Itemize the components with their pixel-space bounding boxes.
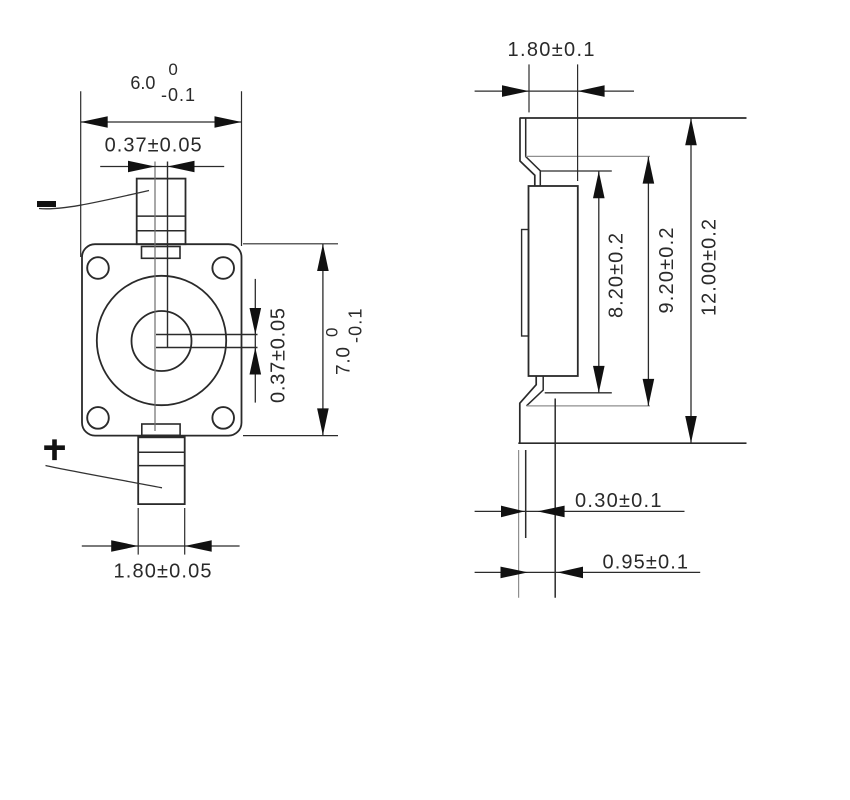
foot top edge / 9.20 extension bottom [526,405,650,407]
plus polarity mark [44,439,65,460]
svg-text:0.37±0.05: 0.37±0.05 [268,308,290,403]
dim 6.0 extension line left [80,91,82,257]
bottom lead inner contour [526,377,543,406]
svg-text:0: 0 [168,60,177,79]
dim 8.20 arrow bottom [593,366,605,393]
dim 0.95 line [475,571,701,573]
dim 9.20 line [647,157,649,406]
top lead outer contour [520,118,535,186]
svg-text:0.95±0.1: 0.95±0.1 [603,552,689,574]
dim 0.37 top arrow left [128,161,155,173]
8.20 extension top [540,170,612,172]
body rectangle [529,186,578,376]
dim 6.0 line [81,121,242,123]
top lead crimp line 1 [137,215,186,217]
dim 6.0 arrow left [81,116,108,128]
side bump [522,230,529,337]
corner hole bottom-right [212,407,234,429]
dim 1.80 bottom extension right [184,508,186,555]
dim 0.37 top arrow right [168,161,195,173]
dim 1.80 top extension left [528,64,530,112]
top tab [142,247,181,259]
dim 7.0 extension top [243,243,338,245]
dim 1.80 top extension right [577,64,579,181]
dim 1.80 bottom arrow left [111,540,138,552]
dim 0.30 line [475,510,685,512]
dim 12.00 arrow top [685,118,697,145]
corner hole top-left [87,257,109,279]
foot tip extension line [554,399,556,598]
dim 0.95 arrow right [558,567,584,579]
svg-text:1.80±0.05: 1.80±0.05 [114,561,212,583]
bottom lead [138,437,185,504]
svg-text:7.0: 7.0 [334,347,355,375]
dim 1.80 bottom arrow right [185,540,212,552]
svg-text:0: 0 [323,328,342,337]
dim 1.80 bottom extension left [137,508,139,555]
foot bottom edge / 12.00 extension bottom [518,442,746,444]
top lead inner contour [526,118,541,186]
dim 0.37 top line [100,166,224,168]
dim 7.0 arrow bottom [317,408,329,435]
svg-text:1.80±0.1: 1.80±0.1 [508,39,595,61]
dim 7.0 line [322,244,324,436]
svg-text:-0.1: -0.1 [161,85,195,105]
wire edge line right [167,162,169,348]
corner hole top-right [212,257,234,279]
plus leader line [46,466,163,488]
lens outer circle [97,276,226,405]
top lead [137,179,186,245]
dim 1.80 top line [475,90,634,92]
svg-text:0.37±0.05: 0.37±0.05 [105,135,202,157]
package outline [82,244,242,435]
wire edge line left / centerline [154,162,156,432]
svg-text:8.20±0.2: 8.20±0.2 [606,233,628,318]
top lead crimp line 2 [137,230,186,232]
svg-text:12.00±0.2: 12.00±0.2 [699,219,721,316]
dim 8.20 line [598,171,600,393]
8.20 extension bottom [545,392,612,394]
corner hole bottom-left [87,407,109,429]
dim 1.80 bottom line [82,545,240,547]
bottom lead outer contour [520,377,536,444]
centre slot bottom line [156,347,258,349]
dim 9.20 arrow top [643,157,655,184]
minus leader line [39,191,149,209]
dim 1.80 top arrow right [578,85,605,97]
lens inner circle [132,311,192,371]
dim 0.37 centre line [254,279,256,403]
bottom lead crimp line 2 [138,465,185,467]
dim 0.37 centre arrow lower [250,348,262,375]
centre slot top line [156,334,258,336]
tail extension line inner [525,450,527,538]
dim 8.20 arrow top [593,171,605,198]
dim 0.37 centre arrow upper [250,308,262,335]
tail extension line outer [518,450,520,598]
svg-text:6.0: 6.0 [130,73,155,93]
dim 6.0 arrow right [215,116,242,128]
dim 1.80 top arrow left [502,85,529,97]
top flange bottom edge / 9.20 extension top [526,155,650,157]
svg-text:9.20±0.2: 9.20±0.2 [656,228,678,314]
dim 7.0 extension bottom [243,435,338,437]
minus polarity mark [37,201,56,207]
bottom tab [142,424,180,435]
dim 0.30 arrow left [501,506,525,518]
bottom lead crimp line 1 [138,451,185,453]
dim 9.20 arrow bottom [643,379,655,406]
dim 12.00 line [690,118,692,443]
svg-text:0.30±0.1: 0.30±0.1 [575,490,662,512]
dim 6.0 extension line right [241,91,243,246]
dim 12.00 arrow bottom [685,416,697,443]
dim 0.30 arrow right [537,506,564,518]
dim 0.95 arrow left [501,567,529,579]
dim 7.0 arrow top [317,244,329,271]
top flange top edge / 12.00 extension top [520,117,747,119]
